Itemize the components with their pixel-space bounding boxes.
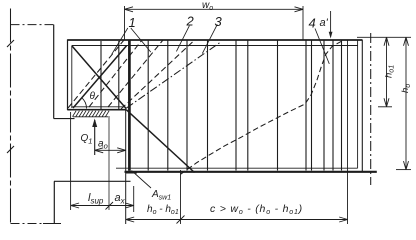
- svg-text:lsup: lsup: [88, 192, 104, 206]
- svg-text:ho: ho: [400, 84, 412, 93]
- svg-text:1: 1: [129, 15, 136, 30]
- svg-text:Asw1: Asw1: [151, 189, 171, 202]
- svg-text:Q1: Q1: [81, 133, 93, 146]
- svg-text:c > wo - (ho - ho1): c > wo - (ho - ho1): [210, 203, 303, 216]
- svg-text:2: 2: [186, 14, 195, 29]
- svg-text:3: 3: [215, 14, 223, 29]
- svg-text:a': a': [320, 17, 329, 29]
- svg-text:4: 4: [309, 16, 316, 31]
- svg-text:ho1: ho1: [384, 65, 396, 78]
- svg-text:ho - ho1: ho - ho1: [147, 204, 179, 216]
- svg-text:wo: wo: [202, 0, 213, 12]
- svg-text:ax: ax: [115, 192, 126, 206]
- svg-text:θ: θ: [90, 91, 96, 102]
- svg-text:ao: ao: [98, 139, 108, 151]
